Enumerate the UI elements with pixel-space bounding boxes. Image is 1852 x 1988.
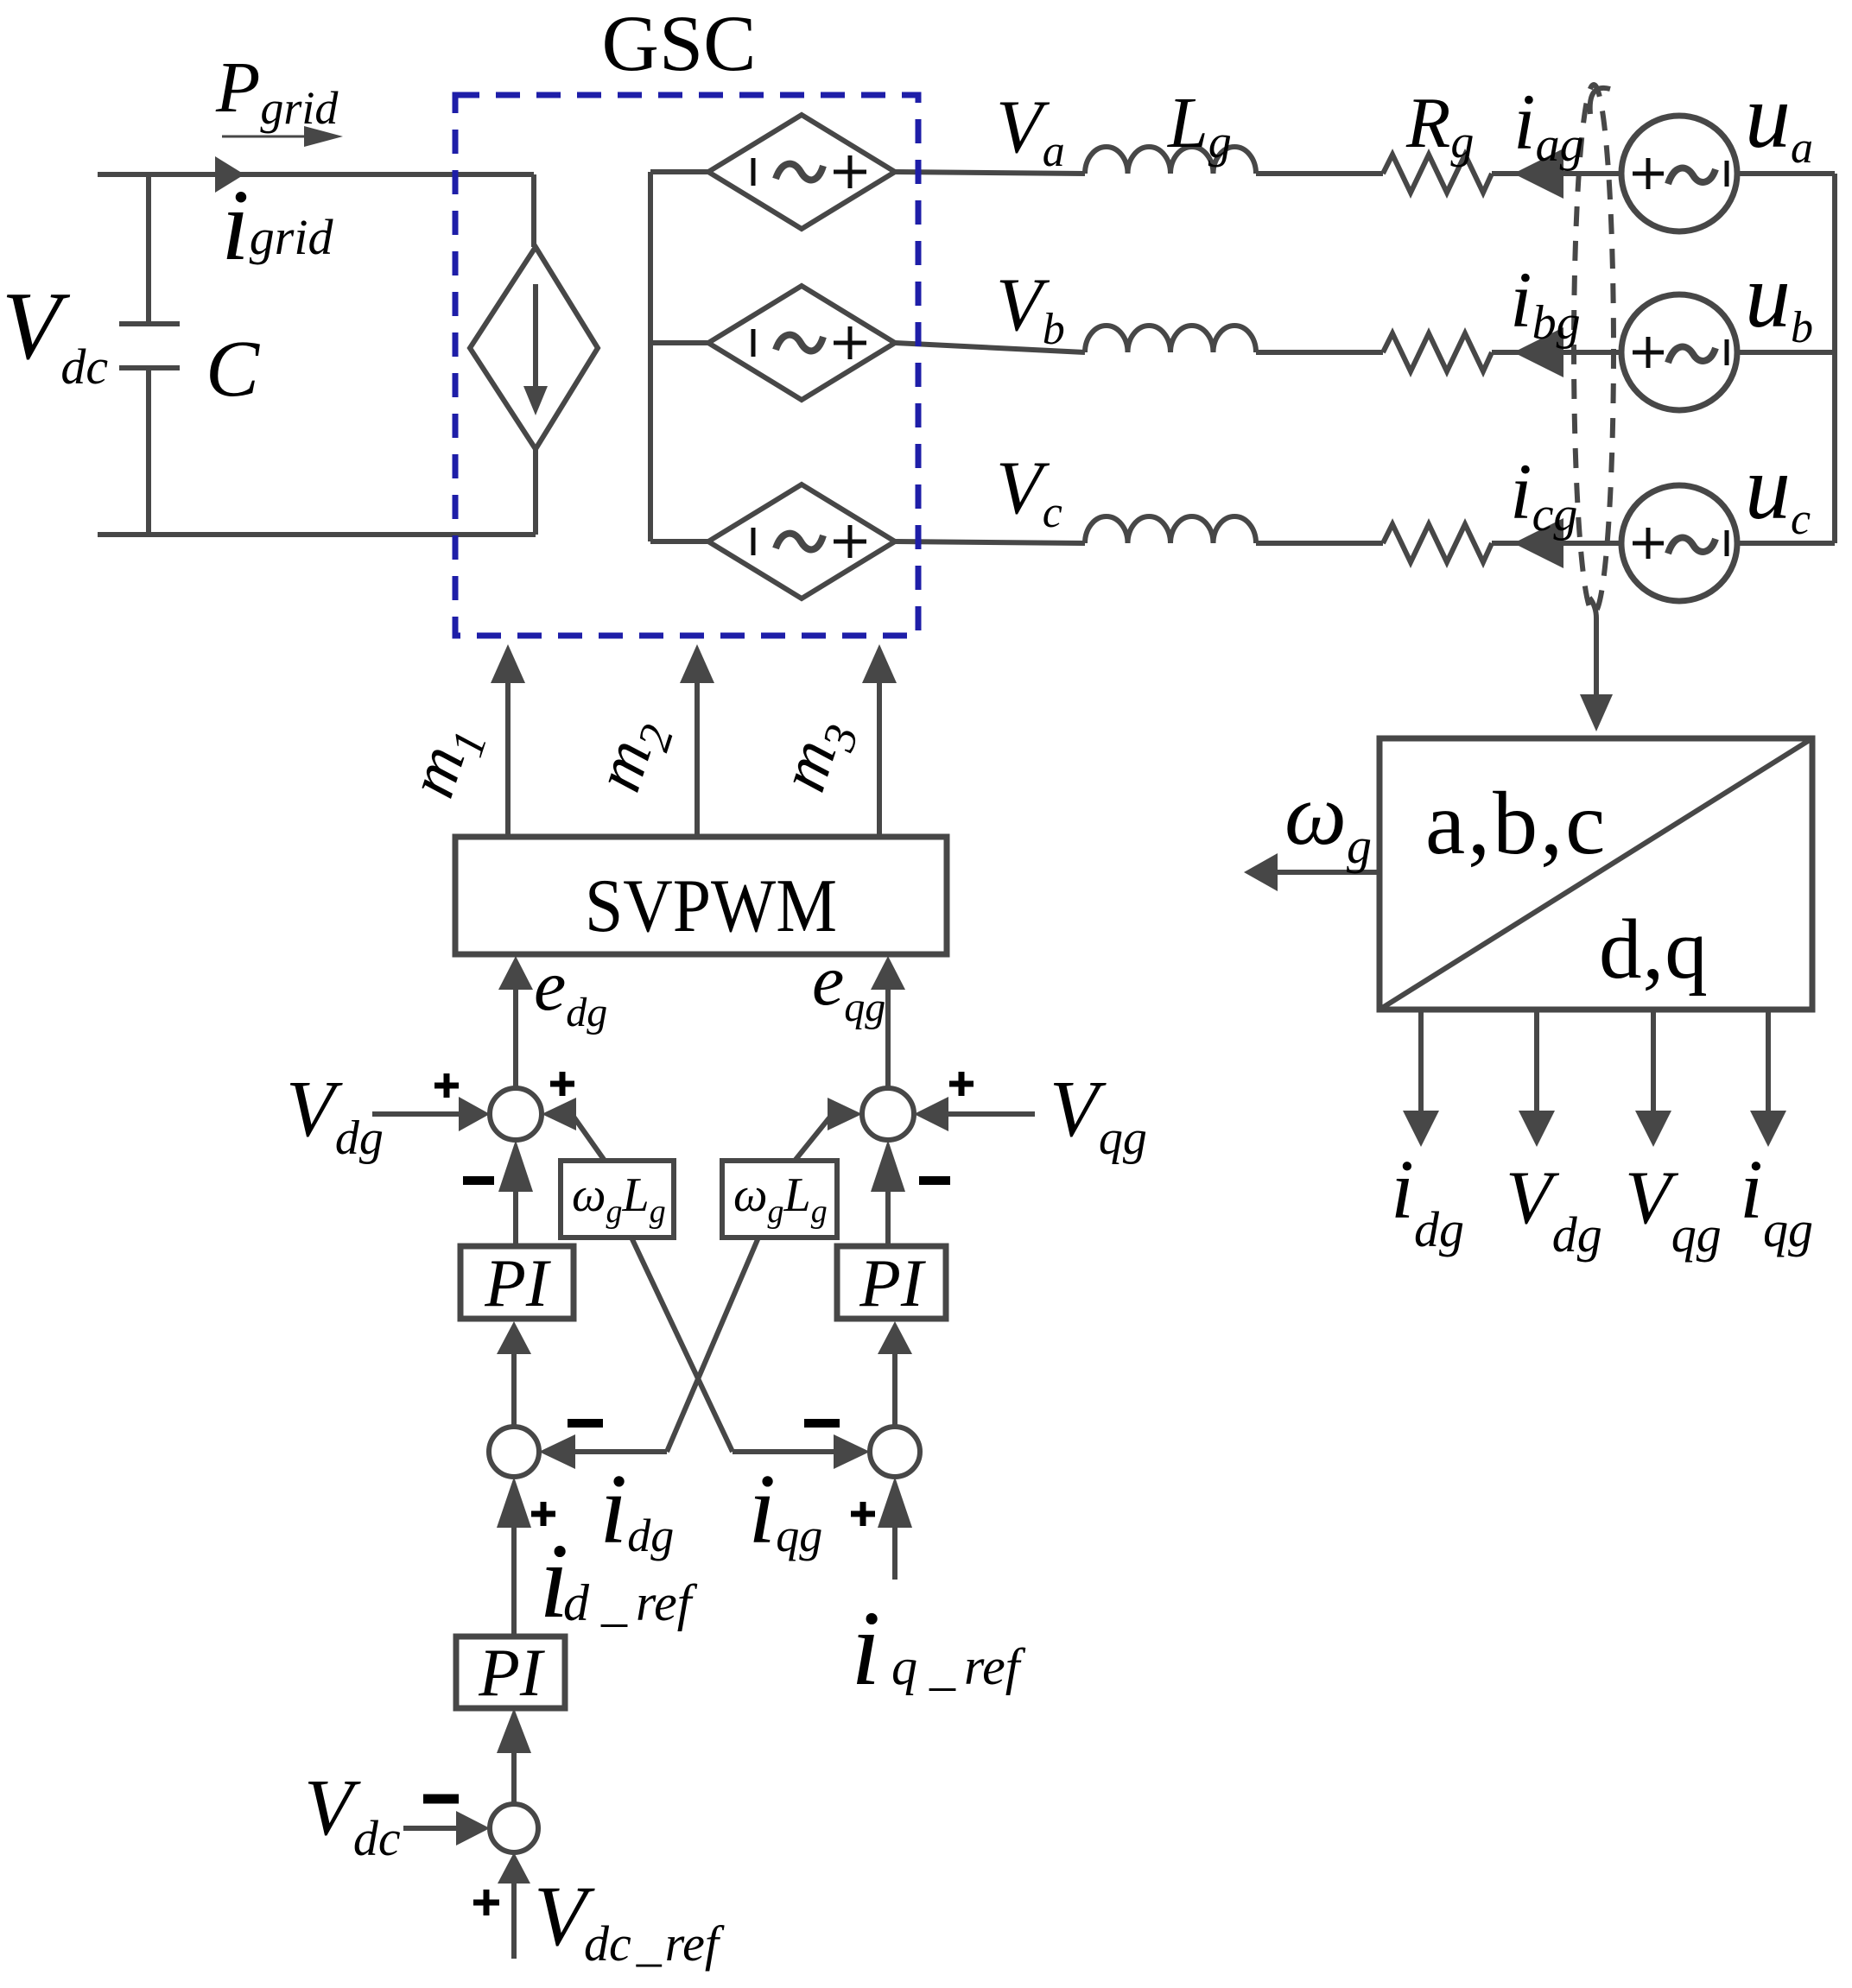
svg-text:a,b,c: a,b,c <box>1425 774 1608 873</box>
svg-text:dc_ref: dc_ref <box>584 1915 725 1972</box>
svg-text:GSC: GSC <box>602 0 757 87</box>
svg-text:PI: PI <box>484 1245 552 1320</box>
svg-text:PI: PI <box>478 1635 546 1710</box>
svg-text:PI: PI <box>859 1245 927 1320</box>
svg-text:d,q: d,q <box>1599 902 1709 997</box>
svg-text:SVPWM: SVPWM <box>585 864 837 948</box>
svg-text:i: i <box>851 1589 880 1707</box>
svg-text:C: C <box>206 325 260 414</box>
